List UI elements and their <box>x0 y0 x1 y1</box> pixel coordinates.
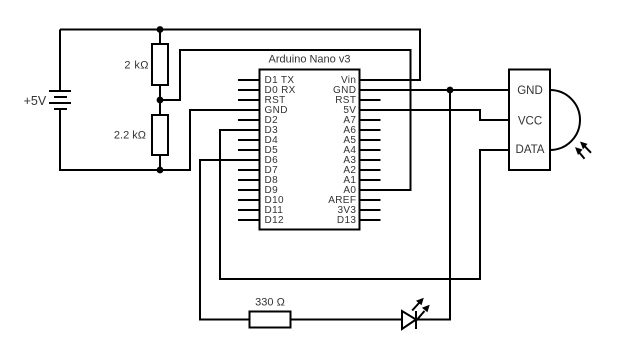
svg-text:2.2 kΩ: 2.2 kΩ <box>114 130 146 142</box>
svg-text:Arduino Nano v3: Arduino Nano v3 <box>269 54 351 66</box>
svg-text:D13: D13 <box>337 215 356 226</box>
svg-text:330 Ω: 330 Ω <box>255 297 285 309</box>
svg-text:GND: GND <box>517 85 543 97</box>
svg-text:+5V: +5V <box>24 94 47 108</box>
svg-text:DATA: DATA <box>516 144 545 156</box>
svg-text:2 kΩ: 2 kΩ <box>124 60 149 72</box>
svg-text:VCC: VCC <box>518 115 542 127</box>
svg-text:D12: D12 <box>265 215 284 226</box>
